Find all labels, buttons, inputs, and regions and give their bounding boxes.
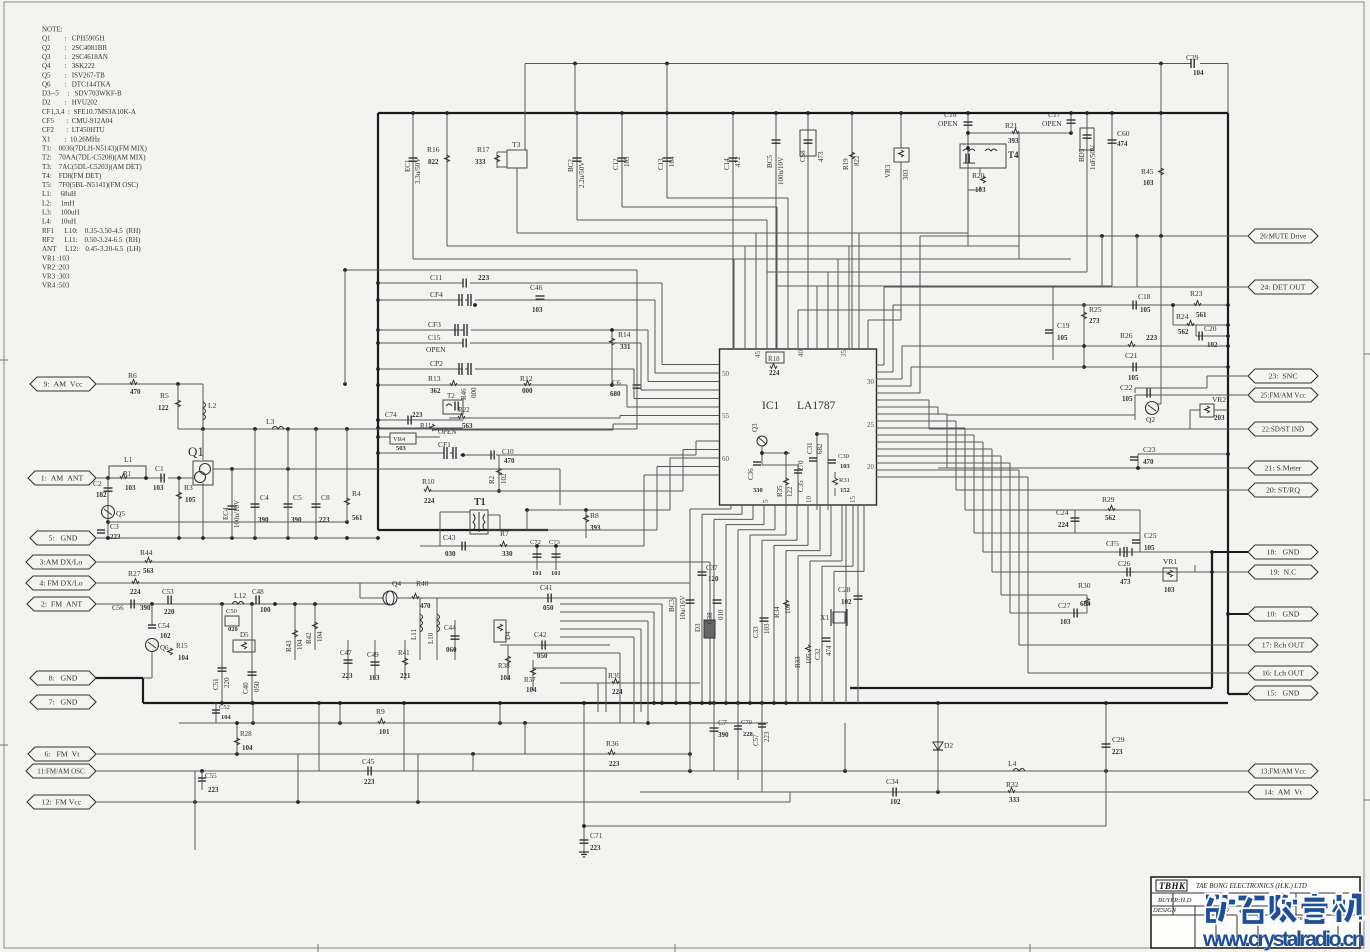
svg-text:R24: R24 <box>1176 312 1189 321</box>
svg-text:CP2: CP2 <box>430 359 443 368</box>
svg-text:223: 223 <box>110 533 121 541</box>
svg-text:223: 223 <box>319 516 330 524</box>
svg-text:Q6: Q6 <box>160 644 169 652</box>
svg-text:C13: C13 <box>657 158 665 170</box>
svg-text:C1: C1 <box>155 464 164 473</box>
svg-text:470: 470 <box>1143 458 1154 466</box>
svg-text:C46: C46 <box>530 283 543 292</box>
svg-text:25:FM/AM Vcc: 25:FM/AM Vcc <box>1260 392 1305 400</box>
svg-text:BC5: BC5 <box>766 155 774 168</box>
svg-text:103: 103 <box>125 484 136 492</box>
svg-text:Q4: Q4 <box>392 579 401 588</box>
svg-text:16: Lch OUT: 16: Lch OUT <box>1262 669 1304 678</box>
svg-text:D2: D2 <box>944 741 953 750</box>
svg-text:R8: R8 <box>590 511 599 520</box>
svg-text:C16: C16 <box>944 110 957 119</box>
svg-text:105: 105 <box>1140 306 1151 314</box>
svg-text:C17: C17 <box>1048 110 1061 119</box>
svg-text:R21: R21 <box>1005 121 1018 130</box>
svg-text:R39: R39 <box>608 671 621 680</box>
svg-text:R23: R23 <box>1190 289 1203 298</box>
svg-text:11:FM/AM OSC: 11:FM/AM OSC <box>37 768 85 776</box>
svg-text:C12: C12 <box>612 158 620 170</box>
svg-text:R6: R6 <box>128 371 137 380</box>
svg-text:220: 220 <box>223 677 231 688</box>
svg-text:104: 104 <box>178 654 189 662</box>
svg-text:562: 562 <box>1105 514 1116 522</box>
svg-text:35: 35 <box>840 350 848 358</box>
svg-text:T3: 7AC(5DL-C5203)(AM DET): T3: 7AC(5DL-C5203)(AM DET) <box>42 163 142 171</box>
svg-text:3:AM DX/Lo: 3:AM DX/Lo <box>40 558 83 567</box>
svg-text:Q6 : DTC144TKA: Q6 : DTC144TKA <box>42 80 111 88</box>
svg-text:C74: C74 <box>385 411 397 419</box>
svg-text:152: 152 <box>840 487 850 494</box>
svg-text:105: 105 <box>185 496 196 504</box>
svg-text:17: Rch OUT: 17: Rch OUT <box>1262 641 1305 650</box>
svg-text:R36: R36 <box>606 739 619 748</box>
svg-text:CF1: CF1 <box>438 440 451 449</box>
svg-text:C43: C43 <box>443 533 456 542</box>
svg-text:330: 330 <box>502 550 513 558</box>
svg-text:R38: R38 <box>498 662 510 670</box>
svg-text:105: 105 <box>623 156 631 167</box>
svg-text:R27: R27 <box>128 569 141 578</box>
svg-text:473: 473 <box>1120 578 1131 586</box>
svg-text:R22: R22 <box>458 406 470 414</box>
svg-text:362: 362 <box>430 387 441 395</box>
svg-text:Q1: Q1 <box>188 444 204 459</box>
svg-text:470: 470 <box>130 388 141 396</box>
svg-text:Q5: Q5 <box>116 509 125 518</box>
svg-text:224: 224 <box>612 688 623 696</box>
svg-text:R13: R13 <box>428 374 441 383</box>
svg-text:223: 223 <box>590 844 601 852</box>
svg-text:VR4: VR4 <box>393 436 406 443</box>
svg-text:22:SD/ST IND: 22:SD/ST IND <box>1262 426 1304 434</box>
svg-text:5: GND: 5: GND <box>49 534 78 543</box>
svg-text:010: 010 <box>717 609 725 620</box>
svg-text:OPEN: OPEN <box>426 345 446 354</box>
svg-text:390: 390 <box>258 516 269 524</box>
svg-text:R19: R19 <box>842 158 850 170</box>
svg-text:R37: R37 <box>524 676 536 684</box>
svg-text:R16: R16 <box>427 145 440 154</box>
svg-text:CF4: CF4 <box>430 290 443 299</box>
svg-text:224: 224 <box>424 497 435 505</box>
svg-text:C24: C24 <box>1056 508 1069 517</box>
svg-text:C40: C40 <box>242 682 250 694</box>
svg-text:104: 104 <box>316 631 324 642</box>
svg-text:223: 223 <box>364 778 375 786</box>
svg-text:C20: C20 <box>1204 324 1217 333</box>
svg-text:C49: C49 <box>367 651 379 659</box>
svg-text:273: 273 <box>1089 317 1100 325</box>
svg-text:105: 105 <box>805 653 813 664</box>
svg-text:VR4 :503: VR4 :503 <box>42 282 70 290</box>
svg-text:C2: C2 <box>93 479 102 488</box>
svg-text:103: 103 <box>1060 618 1071 626</box>
svg-text:L4: 10uH: L4: 10uH <box>42 218 76 226</box>
svg-text:2: FM ANT: 2: FM ANT <box>41 600 82 609</box>
svg-text:103: 103 <box>532 306 543 314</box>
svg-text:122: 122 <box>786 486 794 497</box>
svg-text:104: 104 <box>1193 69 1204 77</box>
svg-text:C11: C11 <box>430 273 442 282</box>
svg-text:C23: C23 <box>1143 445 1156 454</box>
svg-text:VR3: VR3 <box>884 164 892 178</box>
svg-text:45: 45 <box>754 351 762 359</box>
svg-text:101: 101 <box>551 570 561 577</box>
svg-text:R4: R4 <box>352 489 361 498</box>
svg-text:T1: 0036(7DLH-N5143)(FM MIX: T1: 0036(7DLH-N5143)(FM MIX) <box>42 144 147 152</box>
svg-text:14: AM Vt: 14: AM Vt <box>1264 788 1303 797</box>
svg-text:C36: C36 <box>747 468 755 480</box>
svg-text:103: 103 <box>153 484 164 492</box>
svg-text:C22: C22 <box>1120 383 1133 392</box>
svg-text:NOTE:: NOTE: <box>42 26 63 34</box>
svg-text:Q2 : 2SC4081BR: Q2 : 2SC4081BR <box>42 44 107 52</box>
svg-text:RF2 L11: 0.50-3.24-6.5: RF2 L11: 0.50-3.24-6.5 (RH) <box>42 236 141 244</box>
svg-text:C3: C3 <box>110 522 119 531</box>
svg-text:C14: C14 <box>723 158 731 170</box>
svg-text:L3: L3 <box>266 417 275 426</box>
svg-text:105: 105 <box>1122 395 1133 403</box>
svg-text:050: 050 <box>543 604 554 612</box>
svg-text:12: FM Vcc: 12: FM Vcc <box>42 798 82 807</box>
svg-text:060: 060 <box>446 646 457 654</box>
svg-text:220: 220 <box>164 608 175 616</box>
svg-text:T3: T3 <box>512 140 521 149</box>
svg-text:RF1 L10: 0.35-3.50-4.5: RF1 L10: 0.35-3.50-4.5 (RH) <box>42 227 141 235</box>
svg-text:C31: C31 <box>806 442 814 454</box>
svg-text:030: 030 <box>445 550 456 558</box>
svg-text:000: 000 <box>522 387 533 395</box>
svg-text:X1 : 10.26MHz: X1 : 10.26MHz <box>42 135 100 143</box>
svg-text:R34: R34 <box>773 606 781 618</box>
svg-text:X1: X1 <box>820 613 829 622</box>
svg-text:Q1 : CPH5905H: Q1 : CPH5905H <box>42 35 104 43</box>
svg-text:C45: C45 <box>362 757 375 766</box>
svg-text:L4: L4 <box>1008 759 1017 768</box>
svg-text:333: 333 <box>1009 796 1020 804</box>
svg-text:C52: C52 <box>219 704 230 711</box>
svg-text:103: 103 <box>369 674 380 682</box>
svg-text:20: 20 <box>867 463 875 471</box>
svg-text:R33: R33 <box>794 656 802 668</box>
svg-text:104: 104 <box>296 639 304 650</box>
svg-text:120: 120 <box>708 575 719 583</box>
svg-text:333: 333 <box>475 158 486 166</box>
svg-text:T1: T1 <box>474 497 486 508</box>
svg-text:104: 104 <box>242 744 253 752</box>
svg-text:C26: C26 <box>1118 559 1131 568</box>
svg-text:BC2: BC2 <box>567 159 575 172</box>
svg-text:122: 122 <box>158 404 169 412</box>
svg-text:C48: C48 <box>252 588 264 596</box>
svg-text:10: GND: 10: GND <box>1267 610 1300 619</box>
svg-text:R30: R30 <box>1078 581 1091 590</box>
svg-text:L3: 100uH: L3: 100uH <box>42 209 80 217</box>
svg-text:R25: R25 <box>1089 305 1102 314</box>
svg-text:563: 563 <box>143 567 154 575</box>
svg-text:1: AM ANT: 1: AM ANT <box>41 474 84 483</box>
svg-text:102: 102 <box>841 598 852 606</box>
svg-text:50: 50 <box>722 370 730 378</box>
svg-text:4: FM DX/Lo: 4: FM DX/Lo <box>39 579 82 588</box>
svg-text:T2: T2 <box>447 392 455 400</box>
svg-text:C47: C47 <box>340 649 352 657</box>
svg-text:TAE BONG ELECTRONICS (H.K.): TAE BONG ELECTRONICS (H.K.) LTD <box>1196 883 1307 890</box>
svg-text:103: 103 <box>1143 179 1154 187</box>
svg-text:393: 393 <box>590 524 601 532</box>
svg-text:331: 331 <box>620 343 631 351</box>
svg-text:C60: C60 <box>1117 129 1130 138</box>
svg-text:223: 223 <box>1112 748 1123 756</box>
svg-text:DESIGN: DESIGN <box>1152 907 1177 914</box>
svg-text:C50: C50 <box>226 608 237 615</box>
svg-text:R45: R45 <box>1141 167 1154 176</box>
svg-text:19: N.C: 19: N.C <box>1270 568 1297 577</box>
svg-text:470: 470 <box>420 602 431 610</box>
svg-text:CF1,3,4 : SFE10.7MS3A10K-A: CF1,3,4 : SFE10.7MS3A10K-A <box>42 108 136 116</box>
svg-text:CF3: CF3 <box>428 320 441 329</box>
svg-text:101: 101 <box>379 728 390 736</box>
svg-text:R31: R31 <box>839 477 850 484</box>
svg-text:683: 683 <box>1080 600 1091 608</box>
svg-text:223: 223 <box>763 731 771 742</box>
svg-text:822: 822 <box>853 155 861 166</box>
svg-text:C55: C55 <box>205 772 217 780</box>
svg-text:R14: R14 <box>618 330 631 339</box>
svg-text:R9: R9 <box>376 707 385 716</box>
svg-text:C57: C57 <box>752 734 760 746</box>
svg-text:www.crystalradio.cn: www.crystalradio.cn <box>1202 927 1365 951</box>
svg-text:101: 101 <box>532 570 542 577</box>
svg-text:105: 105 <box>1144 544 1155 552</box>
svg-text:472: 472 <box>734 156 742 167</box>
svg-text:OPEN: OPEN <box>938 119 958 128</box>
svg-text:R32: R32 <box>1006 780 1019 789</box>
svg-text:R17: R17 <box>477 145 490 154</box>
svg-text:T2: 70AA(7DL-C5208)(AM MIX): T2: 70AA(7DL-C5208)(AM MIX) <box>42 154 146 162</box>
svg-text:C8: C8 <box>321 493 330 502</box>
svg-text:10u/16V: 10u/16V <box>679 596 687 621</box>
svg-text:T4: FD8(FM DET): T4: FD8(FM DET) <box>42 172 102 180</box>
svg-text:C25: C25 <box>1144 531 1157 540</box>
svg-text:100u/10V: 100u/10V <box>233 500 241 528</box>
svg-text:D2 : HVU202: D2 : HVU202 <box>42 99 98 107</box>
svg-text:R26: R26 <box>1120 331 1133 340</box>
svg-text:C30: C30 <box>838 453 849 460</box>
svg-text:203: 203 <box>1214 414 1225 422</box>
svg-text:55: 55 <box>722 412 730 420</box>
svg-text:20: ST/RQ: 20: ST/RQ <box>1266 486 1300 495</box>
svg-text:020: 020 <box>228 626 238 633</box>
svg-text:105: 105 <box>1057 334 1068 342</box>
svg-text:C70: C70 <box>741 719 752 726</box>
svg-text:100: 100 <box>260 606 271 614</box>
svg-text:CF5 : CMU-912A04: CF5 : CMU-912A04 <box>42 117 113 125</box>
svg-text:C58: C58 <box>799 150 807 162</box>
svg-text:223: 223 <box>208 786 219 794</box>
svg-text:21: S.Meter: 21: S.Meter <box>1265 464 1302 473</box>
svg-text:T4: T4 <box>1008 150 1019 160</box>
svg-text:223: 223 <box>342 672 353 680</box>
svg-text:105: 105 <box>1128 374 1139 382</box>
svg-text:9: AM Vcc: 9: AM Vcc <box>44 380 84 389</box>
svg-text:102: 102 <box>160 632 171 640</box>
svg-text:LA1787: LA1787 <box>797 400 836 412</box>
svg-text:C27: C27 <box>1058 601 1071 610</box>
svg-text:474: 474 <box>825 645 833 656</box>
svg-text:390: 390 <box>140 604 151 612</box>
svg-text:223: 223 <box>1146 333 1158 342</box>
svg-text:L12: L12 <box>234 591 246 600</box>
svg-text:D3--5 : SDV703WKF-B: D3--5 : SDV703WKF-B <box>42 90 122 98</box>
svg-text:102: 102 <box>890 798 901 806</box>
svg-text:224: 224 <box>769 369 780 377</box>
svg-text:221: 221 <box>400 672 411 680</box>
svg-text:680: 680 <box>610 390 621 398</box>
svg-text:10: 10 <box>805 496 813 504</box>
svg-text:R7: R7 <box>500 529 509 538</box>
svg-text:23: SNC: 23: SNC <box>1268 372 1297 381</box>
svg-text:104: 104 <box>221 714 232 721</box>
svg-text:C5: C5 <box>293 493 302 502</box>
svg-text:T5: 7F0(5BL-N5141)(FM OSC): T5: 7F0(5BL-N5141)(FM OSC) <box>42 181 139 189</box>
svg-text:VR3 :303: VR3 :303 <box>42 273 70 281</box>
svg-text:1uF/50V: 1uF/50V <box>1089 145 1097 170</box>
svg-text:L1: L1 <box>124 455 133 464</box>
svg-text:L11: L11 <box>410 628 418 640</box>
svg-text:C42: C42 <box>534 630 547 639</box>
svg-text:Q4 : 3SK222: Q4 : 3SK222 <box>42 62 95 70</box>
svg-text:24: DET OUT: 24: DET OUT <box>1260 283 1305 292</box>
svg-text:BC3: BC3 <box>668 599 676 612</box>
svg-text:13:FM/AM Vcc: 13:FM/AM Vcc <box>1260 768 1305 776</box>
svg-text:473: 473 <box>817 151 825 162</box>
svg-text:Q5 : ISV267-TB: Q5 : ISV267-TB <box>42 71 105 79</box>
svg-text:R15: R15 <box>176 642 188 650</box>
svg-text:C53: C53 <box>162 588 174 596</box>
svg-text:393: 393 <box>1008 137 1019 145</box>
svg-text:R5: R5 <box>160 391 169 400</box>
svg-text:BUYER:H.D: BUYER:H.D <box>1158 897 1192 904</box>
svg-text:224: 224 <box>1058 521 1069 529</box>
svg-text:561: 561 <box>352 514 363 522</box>
svg-text:470: 470 <box>504 457 515 465</box>
svg-text:503: 503 <box>396 445 407 452</box>
svg-text:VR1: VR1 <box>1163 557 1177 566</box>
svg-text:822: 822 <box>428 158 439 166</box>
svg-text:104: 104 <box>500 674 511 682</box>
svg-text:EC4: EC4 <box>222 507 230 520</box>
svg-text:C34: C34 <box>886 777 899 786</box>
svg-text:VR2 :203: VR2 :203 <box>42 263 70 271</box>
svg-text:C28: C28 <box>838 585 851 594</box>
svg-text:100u/10V: 100u/10V <box>777 157 785 185</box>
svg-text:303: 303 <box>902 169 910 180</box>
svg-text:390: 390 <box>718 731 729 739</box>
svg-text:C15: C15 <box>428 333 441 342</box>
svg-text:R10: R10 <box>422 477 435 486</box>
svg-text:C51: C51 <box>212 678 220 690</box>
svg-text:D3: D3 <box>694 623 702 632</box>
svg-text:C19: C19 <box>1057 321 1070 330</box>
svg-text:224: 224 <box>130 588 141 596</box>
svg-text:C7: C7 <box>718 718 727 727</box>
svg-text:C56: C56 <box>112 604 124 612</box>
svg-text:OPEN: OPEN <box>1042 119 1062 128</box>
svg-text:C38: C38 <box>706 612 714 624</box>
svg-text:IC1: IC1 <box>762 400 780 412</box>
svg-text:6: FM Vt: 6: FM Vt <box>45 750 81 759</box>
svg-text:R43: R43 <box>285 640 293 652</box>
svg-text:EC1: EC1 <box>404 159 412 172</box>
svg-text:474: 474 <box>1117 140 1128 148</box>
svg-text:R2: R2 <box>488 475 496 484</box>
svg-text:ANT L12: 0.45-3.20-6.5: ANT L12: 0.45-3.20-6.5 (LH) <box>42 245 141 253</box>
svg-text:C71: C71 <box>590 831 603 840</box>
svg-text:15: GND: 15: GND <box>1267 689 1300 698</box>
svg-text:C4: C4 <box>260 493 269 502</box>
svg-text:R12: R12 <box>520 374 533 383</box>
svg-text:8: GND: 8: GND <box>49 674 78 683</box>
svg-text:C29: C29 <box>1112 735 1125 744</box>
svg-text:L2: 1mH: L2: 1mH <box>42 199 74 207</box>
svg-text:561: 561 <box>1196 311 1207 319</box>
svg-text:3.3u/50V: 3.3u/50V <box>414 158 422 184</box>
svg-text:R18: R18 <box>768 355 780 363</box>
svg-text:C37: C37 <box>706 564 718 572</box>
svg-text:223: 223 <box>412 411 423 419</box>
svg-text:330: 330 <box>753 487 763 494</box>
svg-text:R29: R29 <box>1102 495 1115 504</box>
svg-text:VR2: VR2 <box>1212 395 1226 404</box>
svg-text:102: 102 <box>500 473 508 484</box>
svg-text:104: 104 <box>668 156 676 167</box>
svg-text:TBHK: TBHK <box>1159 881 1186 891</box>
svg-text:18: GND: 18: GND <box>1267 548 1300 557</box>
svg-text:L10: L10 <box>427 632 435 644</box>
svg-text:25: 25 <box>867 421 875 429</box>
svg-text:5: 5 <box>762 499 770 503</box>
svg-text:C35: C35 <box>797 480 805 492</box>
svg-text:C32: C32 <box>814 648 822 660</box>
svg-text:682: 682 <box>816 443 824 454</box>
svg-text:Q3: Q3 <box>751 423 759 432</box>
svg-text:C54: C54 <box>158 622 170 630</box>
svg-text:VR1 :103: VR1 :103 <box>42 254 70 262</box>
svg-text:223: 223 <box>609 760 620 768</box>
svg-text:D5: D5 <box>240 631 249 639</box>
svg-text:104: 104 <box>526 686 537 694</box>
svg-text:182: 182 <box>96 491 107 499</box>
svg-text:562: 562 <box>1178 328 1189 336</box>
svg-text:L2: L2 <box>208 401 217 410</box>
svg-text:Q2: Q2 <box>1146 415 1155 424</box>
svg-text:15: 15 <box>849 496 857 504</box>
svg-text:L1: 68uH: L1: 68uH <box>42 190 76 198</box>
svg-text:C21: C21 <box>1125 351 1138 360</box>
svg-text:R44: R44 <box>140 548 153 557</box>
svg-text:103: 103 <box>763 623 771 634</box>
svg-text:C39: C39 <box>1186 53 1199 62</box>
svg-text:30: 30 <box>867 378 875 386</box>
svg-text:C18: C18 <box>1138 292 1151 301</box>
svg-text:Q3 : 2SC4618AN: Q3 : 2SC4618AN <box>42 53 108 61</box>
svg-text:R40: R40 <box>416 579 429 588</box>
